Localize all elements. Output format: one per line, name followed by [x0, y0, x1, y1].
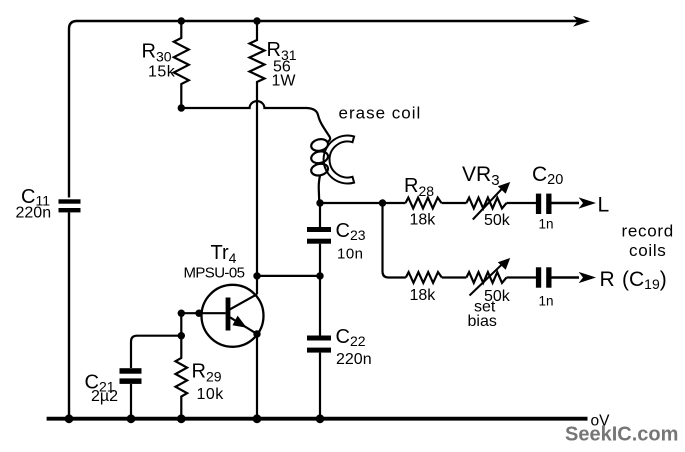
- svg-text:MPSU-05: MPSU-05: [184, 265, 245, 282]
- wire emitter down: [256, 334, 258, 419]
- svg-text:erase coil: erase coil: [339, 104, 422, 123]
- wire pot to C19 row2: [507, 276, 537, 278]
- transistor Q Tr4: [181, 285, 263, 347]
- svg-text:2µ2: 2µ2: [91, 388, 118, 405]
- svg-text:220n: 220n: [16, 205, 52, 222]
- node R28 branch junction: [379, 199, 386, 206]
- arrowhead L: [579, 197, 596, 208]
- svg-text:15k: 15k: [148, 64, 176, 81]
- node emitter exit: [253, 330, 260, 337]
- node base junction: [178, 310, 185, 317]
- svg-text:SeekIC.com: SeekIC.com: [565, 424, 678, 446]
- resistor R30: [174, 21, 189, 108]
- wire collector to C23/C22 junction: [257, 275, 320, 277]
- potentiometer VR3: [466, 182, 510, 220]
- wire R28 to VR3: [442, 202, 467, 204]
- resistor R29: [176, 313, 188, 419]
- svg-text:18k: 18k: [410, 287, 437, 304]
- node R30 bottom junction: [178, 104, 185, 111]
- node C21 branch: [178, 332, 185, 339]
- node rail C22: [316, 414, 325, 423]
- node coil bottom junction: [316, 199, 323, 206]
- node top rail / R31 junction: [253, 17, 260, 24]
- capacitor C11: [59, 199, 81, 419]
- svg-text:bias: bias: [468, 313, 497, 330]
- svg-text:220n: 220n: [336, 351, 372, 368]
- node C23 bottom junction: [316, 272, 323, 279]
- node collector junction: [253, 272, 260, 279]
- capacitor C21: [120, 368, 142, 419]
- svg-text:50k: 50k: [484, 212, 511, 229]
- top rail arrowhead: [573, 16, 590, 27]
- node rail emitter: [253, 414, 262, 423]
- wire R31 line continues below hop: [256, 102, 258, 294]
- resistor 18k row2: [406, 272, 442, 283]
- wire C21 branch: [131, 336, 181, 368]
- resistor R28: [406, 198, 442, 209]
- arrowhead R: [579, 272, 596, 283]
- inductor erase coil: [310, 136, 354, 204]
- wire R30 bottom to erase coil with hop over R31 line: [181, 101, 330, 142]
- svg-text:18k: 18k: [410, 212, 437, 229]
- svg-text:L: L: [598, 194, 610, 217]
- node rail R29: [177, 414, 186, 423]
- node rail C11: [65, 414, 74, 423]
- svg-text:1W: 1W: [272, 73, 297, 90]
- capacitor C20: [536, 194, 579, 214]
- wire drop to row2: [383, 203, 406, 278]
- svg-text:1n: 1n: [539, 294, 554, 309]
- wire bottom rail 0V: [47, 417, 588, 421]
- svg-text:R: R: [600, 268, 615, 291]
- capacitor C19: [536, 267, 579, 287]
- wire coil bottom to R28 branch: [320, 202, 383, 204]
- wire top rail: [69, 21, 578, 198]
- wire VR3 to C20: [507, 202, 537, 204]
- svg-text:10k: 10k: [197, 386, 225, 403]
- svg-text:record: record: [622, 222, 674, 241]
- potentiometer set bias row2: [466, 258, 510, 296]
- wire row1 to R28: [383, 202, 406, 204]
- svg-text:coils: coils: [629, 241, 667, 260]
- wire 18k to pot row2: [442, 276, 467, 278]
- svg-text:10n: 10n: [337, 246, 364, 263]
- capacitor C23: [307, 203, 331, 276]
- node base wire second dot: [195, 310, 202, 317]
- capacitor C22: [307, 276, 331, 419]
- node top rail / R30 junction: [178, 17, 185, 24]
- resistor R31: [250, 21, 265, 102]
- node rail C21: [127, 414, 136, 423]
- svg-text:1n: 1n: [539, 217, 554, 232]
